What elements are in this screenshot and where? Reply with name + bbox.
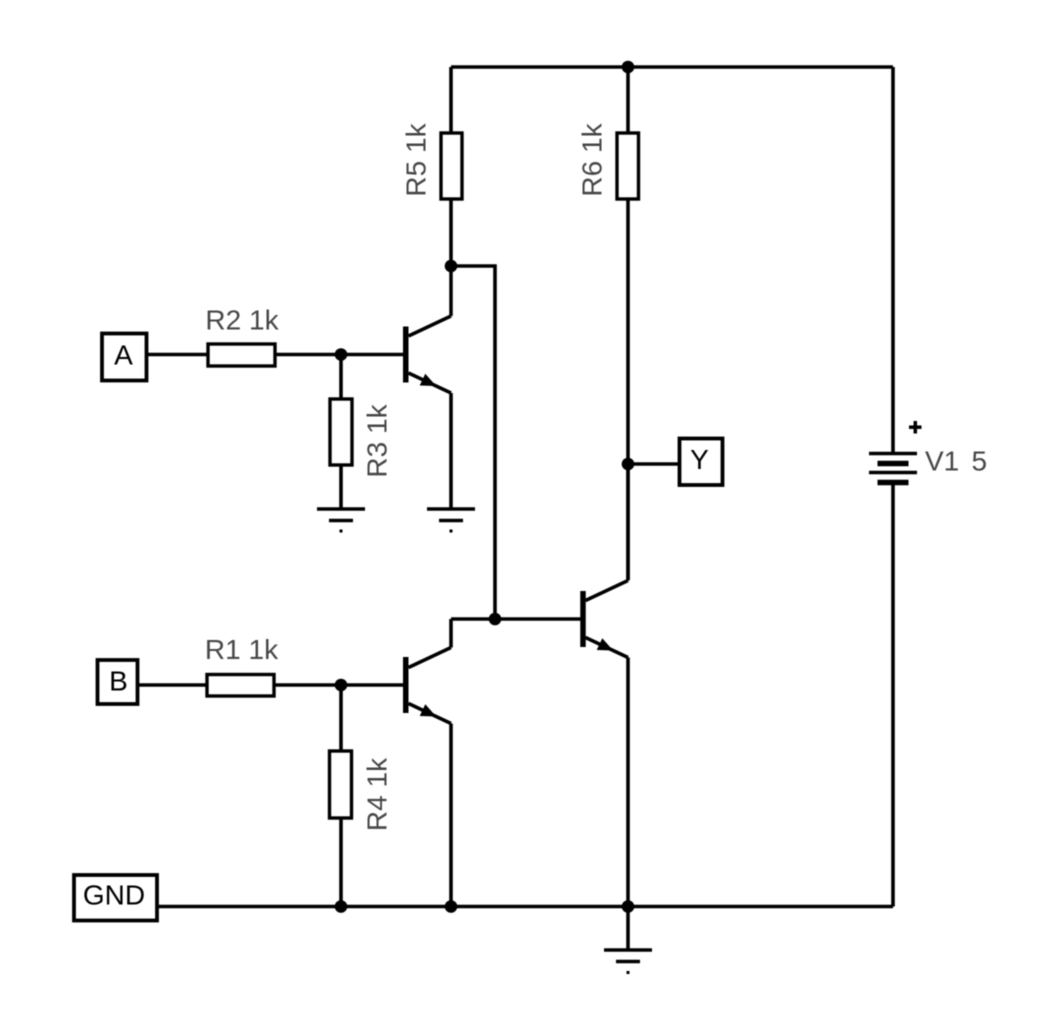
transistor Q1	[406, 266, 451, 393]
wire R3 bottom to ground	[339, 465, 343, 509]
node rail ground	[622, 900, 635, 913]
wire R6 bottom through Y node to Q3 collector	[626, 199, 630, 580]
wire A to R2	[147, 353, 209, 357]
wire R4 top	[339, 685, 343, 751]
wire battery top	[891, 67, 895, 452]
wire node to Q2 base	[341, 683, 403, 687]
resistor R6 1k	[577, 122, 639, 199]
battery V1	[869, 454, 917, 483]
wire Y	[628, 462, 679, 466]
wire R2 to node	[275, 353, 341, 357]
ground under R3	[317, 509, 365, 531]
wire R5 top	[449, 67, 453, 133]
ground under Q1 emitter	[427, 509, 475, 531]
wire mid node to Q3 base	[451, 617, 581, 621]
node A/R3/Q1 base	[335, 348, 348, 361]
svg-text:R1 1k: R1 1k	[205, 634, 279, 665]
svg-text:5: 5	[972, 446, 988, 477]
node rail R4	[335, 900, 348, 913]
svg-text:R2 1k: R2 1k	[205, 305, 279, 336]
transistor Q3	[583, 464, 628, 658]
terminal A	[102, 334, 147, 381]
svg-text:GND: GND	[83, 880, 145, 911]
wire battery bottom	[891, 485, 895, 907]
resistor R4 1k	[330, 751, 393, 831]
svg-text:R3 1k: R3 1k	[362, 403, 393, 477]
node Y / R6	[622, 458, 635, 471]
wire Q1 emitter to ground	[449, 393, 453, 509]
svg-text:R5 1k: R5 1k	[401, 122, 432, 196]
wire R5 bottom to node	[449, 199, 453, 266]
resistor R1 1k	[205, 634, 279, 696]
wire Q2 collector up to mid node	[449, 619, 453, 648]
wire R4 bottom to rail	[339, 818, 343, 907]
transistor Q2	[406, 648, 451, 724]
terminal GND	[74, 875, 157, 921]
resistor R2 1k	[205, 305, 279, 367]
svg-text:V1: V1	[925, 446, 959, 477]
wire R3 top	[339, 355, 343, 400]
node junction dots	[335, 61, 635, 913]
wire B to R1	[138, 683, 208, 687]
wire bottom ground stub	[626, 907, 630, 951]
wire bottom rail	[157, 905, 893, 909]
wire node to elbow down to Q3 base node	[451, 266, 495, 619]
node B/R4/Q2 base	[335, 679, 348, 692]
svg-text:A: A	[114, 340, 133, 371]
wire node to Q1 base	[341, 353, 403, 357]
node top rail / R6	[622, 61, 635, 74]
svg-text:R6 1k: R6 1k	[577, 122, 608, 196]
svg-text:B: B	[109, 666, 128, 697]
svg-text:R4 1k: R4 1k	[362, 757, 393, 831]
wire Q2 emitter down to rail	[449, 724, 453, 907]
wire top rail	[451, 65, 893, 69]
node rail Q2 emitter	[445, 900, 458, 913]
svg-text:Y: Y	[690, 444, 709, 475]
terminal Y	[680, 439, 723, 486]
terminal B	[98, 660, 138, 704]
ground bottom	[604, 950, 652, 973]
resistor R5 1k	[401, 122, 463, 199]
wire R6 top	[626, 67, 630, 133]
resistor R3 1k	[330, 399, 393, 478]
node mid Q3 base	[489, 613, 502, 626]
wire R1 to node	[274, 683, 341, 687]
wire Q3 emitter down to rail	[626, 658, 630, 907]
node Q1 collector / R5	[445, 260, 458, 273]
battery plus sign	[909, 421, 922, 434]
